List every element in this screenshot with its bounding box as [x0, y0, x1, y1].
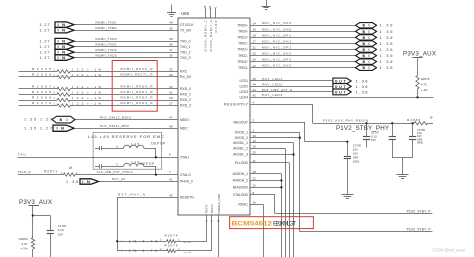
svg-text:MDI_NIC_DP2: MDI_NIC_DP2: [262, 45, 291, 49]
wire cap bus: [392, 157, 412, 159]
svg-text:RGMII_RXCTL_R: RGMII_RXCTL_R: [121, 73, 154, 77]
resistor R2066 22 ohm: [19, 73, 179, 79]
port BI MDI_NIC_DN3: [356, 65, 394, 70]
svg-text:1.27: 1.27: [40, 39, 50, 43]
svg-text:P3V3_AUX_PHY_REGIN: P3V3_AUX_PHY_REGIN: [323, 118, 368, 122]
port BI PHY_54612_MDIO: [24, 116, 75, 123]
svg-text:0603: 0603: [353, 160, 360, 164]
svg-text:TALO_R: TALO_R: [18, 170, 32, 174]
svg-text:DVDD_1: DVDD_1: [235, 131, 248, 135]
svg-text:1.36: 1.36: [380, 35, 394, 40]
port BI MDI_NIC_DP0: [356, 23, 394, 28]
svg-text:EB1KMLGT: EB1KMLGT: [273, 221, 296, 227]
svg-text:OVDD_RGMII_2: OVDD_RGMII_2: [209, 20, 213, 51]
wire MDI_NIC_DP0: [250, 21, 356, 25]
svg-text:48: 48: [169, 124, 173, 128]
svg-text:DEPOP: DEPOP: [151, 142, 165, 146]
svg-text:21: 21: [253, 46, 257, 50]
ground (cap bus): [397, 158, 409, 179]
wire MDI_NIC_DN2: [250, 52, 356, 56]
svg-text:R2076: R2076: [421, 77, 430, 81]
resistor R2069 22 ohm: [19, 96, 179, 102]
svg-text:PHY_54612_MDC: PHY_54612_MDC: [100, 124, 130, 128]
svg-text:1.36: 1.36: [380, 53, 394, 58]
svg-text:31: 31: [169, 91, 173, 95]
svg-text:R2071: R2071: [44, 169, 57, 173]
svg-text:22: 22: [253, 64, 257, 68]
svg-text:TRD0+: TRD0+: [237, 24, 248, 28]
wire L45 to XTALI: [144, 142, 166, 158]
svg-text:AVDDL_3: AVDDL_3: [233, 153, 248, 157]
wire DVDD_2: [250, 137, 301, 139]
svg-text:14: 14: [253, 21, 257, 25]
svg-text:RGMII_TXD2: RGMII_TXD2: [96, 48, 117, 52]
svg-text:1.35: 1.35: [24, 126, 36, 130]
svg-text:CLK_25M_PHY_XTALO: CLK_25M_PHY_XTALO: [97, 170, 134, 174]
port BI MDI_NIC_DN1: [356, 41, 394, 46]
capacitor (EMC row A): [95, 146, 123, 150]
port IN PHY_54612_MDC: [24, 125, 74, 131]
svg-text:PHY_A0: PHY_A0: [112, 177, 125, 181]
wire AVDDH_2: [250, 179, 283, 181]
wire PLLVDD: [250, 163, 290, 257]
svg-text:RGMII_RXD3_R: RGMII_RXD3_R: [121, 101, 154, 105]
red highlight box (RGMII_RX nets): [112, 61, 157, 112]
port BI MDI_NIC_DP1: [356, 35, 394, 40]
svg-text:+-1%: +-1%: [421, 88, 428, 92]
svg-text:RXD_1: RXD_1: [180, 93, 191, 97]
svg-text:GTXCLK: GTXCLK: [180, 23, 194, 27]
wire MDI_NIC_DN0: [250, 27, 356, 31]
svg-text:PHY_LED4: PHY_LED4: [262, 93, 282, 97]
wire RGMII_TXD0 to pin TXD_0: [74, 37, 178, 42]
red highlight box (part number): [230, 217, 314, 229]
wire RST_PHY_N: [117, 193, 178, 198]
svg-text:PLLVDD: PLLVDD: [235, 161, 248, 165]
svg-text:RGMII_TXD3: RGMII_TXD3: [96, 54, 117, 58]
capacitor C1787 0.1U 16V: [47, 216, 67, 257]
svg-text:OUT: OUT: [335, 79, 347, 83]
wire MDI_NIC_DN3: [250, 64, 356, 68]
svg-text:38: 38: [169, 37, 173, 41]
svg-text:U86: U86: [181, 11, 190, 16]
svg-text:28: 28: [169, 96, 173, 100]
wire CLK_25M_PHY_XTALO: [75, 170, 178, 176]
svg-text:RGMII_TXD1: RGMII_TXD1: [96, 43, 117, 47]
wire PHY_54612_MDIO: [75, 115, 178, 119]
svg-text:RST_PHY_N: RST_PHY_N: [118, 193, 145, 197]
svg-text:MDIO: MDIO: [180, 118, 189, 122]
wire PHY_LED4 to pullup: [250, 93, 434, 98]
svg-text:XTALVDD: XTALVDD: [233, 193, 249, 197]
svg-text:REGSUPPLY: REGSUPPLY: [224, 103, 249, 107]
svg-text:RDAC: RDAC: [238, 203, 248, 207]
svg-text:45: 45: [253, 77, 257, 81]
port BI MDI_NIC_DN0: [356, 29, 394, 34]
pin 34 OVDD_RGMII_2 top stub: [208, 5, 212, 18]
port IN RGMII_TXCK: [40, 22, 75, 27]
part number BCM54612EB1KMLGT: [232, 220, 297, 227]
svg-text:LED4: LED4: [240, 96, 249, 100]
wire PHY_A0: [99, 177, 179, 181]
svg-text:RGMII_RXD2_R: RGMII_RXD2_R: [121, 96, 154, 100]
wire MDI_NIC_DP3: [250, 58, 356, 62]
wire TEST3 down: [210, 215, 213, 251]
pin name PLLVDD: [235, 159, 256, 165]
svg-text:1.35: 1.35: [66, 180, 78, 184]
svg-text:36: 36: [169, 54, 173, 58]
resistor R2071 0 ohm: [18, 166, 78, 177]
svg-text:RGMII_RXD0_R: RGMII_RXD0_R: [121, 85, 154, 89]
svg-text:42: 42: [169, 194, 173, 198]
svg-text:TXD_0: TXD_0: [180, 39, 191, 43]
svg-text:TRD2-: TRD2-: [238, 54, 248, 58]
pin name RX_DV: [169, 73, 192, 79]
pin name AVDDL_2: [233, 144, 256, 150]
svg-text:OVDD: OVDD: [214, 20, 218, 33]
svg-text:1.27: 1.27: [40, 28, 50, 32]
pin name AVDDL_1: [233, 139, 256, 145]
wire RGMII_TXEN to pin TX_EN: [74, 26, 178, 30]
svg-text:RX_DV: RX_DV: [180, 75, 192, 79]
svg-text:L45-L49 RESERVE FOR EMC: L45-L49 RESERVE FOR EMC: [88, 134, 164, 139]
svg-text:40: 40: [169, 21, 173, 25]
pin 1 OVDD top stub: [213, 6, 217, 18]
svg-text:0805: 0805: [417, 141, 423, 145]
wire REGOUT to P1V2 rail: [250, 118, 347, 141]
svg-text:10: 10: [253, 201, 257, 205]
resistor R2075 4.7K: [117, 243, 212, 254]
svg-text:TRD1-: TRD1-: [238, 42, 248, 46]
svg-text:TRD3+: TRD3+: [237, 60, 248, 64]
svg-text:RXD_0: RXD_0: [180, 87, 191, 91]
svg-text:1.36: 1.36: [380, 23, 394, 28]
pin name XTALVDD: [233, 191, 255, 197]
wire L49 to XTALO: [140, 162, 156, 174]
svg-text:1.27: 1.27: [40, 50, 50, 54]
svg-text:1.36: 1.36: [380, 59, 394, 64]
svg-text:DVDD_2: DVDD_2: [235, 136, 248, 140]
ground (C1795): [341, 194, 353, 196]
wire P3V3_AUX vertical: [32, 206, 51, 238]
svg-text:PHYA_0: PHYA_0: [180, 180, 193, 184]
IC U86 body: [178, 18, 250, 215]
svg-text:1.27: 1.27: [40, 56, 50, 60]
port IN RGMII_TXEN: [40, 28, 75, 33]
svg-text:23: 23: [253, 52, 257, 56]
svg-text:LED3: LED3: [240, 90, 249, 94]
svg-text:R2074: R2074: [165, 234, 178, 238]
svg-text:44: 44: [253, 83, 257, 87]
svg-text:BIASVDD: BIASVDD: [233, 186, 248, 190]
svg-text:1.36: 1.36: [356, 84, 369, 89]
inductor L45: [116, 142, 144, 149]
svg-text:MDI_NIC_DP1: MDI_NIC_DP1: [262, 33, 291, 37]
wire RGMII_TXD3 to pin TXD_3: [74, 54, 178, 58]
svg-text:22: 22: [253, 177, 257, 181]
svg-text:PHY_LED2: PHY_LED2: [262, 82, 282, 86]
resistor R2080 0 ohm: [407, 115, 433, 125]
svg-text:16V: 16V: [371, 138, 376, 142]
svg-text:PHY_LED1: PHY_LED1: [262, 77, 282, 81]
resistor R2067 22 ohm: [19, 85, 179, 91]
svg-text:47: 47: [169, 116, 173, 120]
capacitor C1799 10U 16V 0805: [409, 123, 425, 158]
svg-text:OVDD_RGMII_1: OVDD_RGMII_1: [204, 20, 208, 51]
svg-text:XTALI: XTALI: [180, 156, 189, 160]
svg-text:MDC: MDC: [180, 126, 188, 130]
pin name RXC: [169, 68, 188, 74]
svg-text:LED2: LED2: [240, 85, 249, 89]
svg-text:R2060: R2060: [19, 237, 28, 241]
svg-text:MDI_NIC_DP3: MDI_NIC_DP3: [262, 58, 291, 62]
svg-text:RXD_3: RXD_3: [180, 104, 191, 108]
svg-text:16V: 16V: [58, 232, 63, 236]
port BI MDI_NIC_DP2: [356, 47, 394, 52]
pin name DVDD_1: [235, 129, 255, 135]
ground (top left of U86): [167, 5, 176, 17]
pin name RXD_1: [169, 91, 191, 97]
svg-text:R2080: R2080: [407, 118, 420, 122]
pin name DVDD_2: [235, 134, 257, 140]
svg-text:1.27: 1.27: [40, 118, 52, 122]
port BI MDI_NIC_DN2: [356, 53, 394, 58]
svg-text:AVDDL_1: AVDDL_1: [233, 141, 248, 145]
svg-text:12: 12: [253, 183, 257, 187]
svg-text:PHY_54612_MDIO: PHY_54612_MDIO: [100, 115, 132, 119]
svg-text:17: 17: [253, 40, 257, 44]
resistor R2070 22 ohm: [19, 101, 179, 107]
svg-text:TX_EN: TX_EN: [180, 28, 191, 32]
svg-text:1.36: 1.36: [356, 78, 369, 83]
svg-text:28: 28: [169, 73, 173, 77]
svg-text:1.36: 1.36: [380, 29, 394, 34]
svg-text:AVDDL_2: AVDDL_2: [233, 147, 248, 151]
resistor R2074 4.7K: [117, 234, 207, 245]
svg-text:P3V3_AUX: P3V3_AUX: [403, 51, 436, 58]
resistor R2065 22 ohm: [19, 67, 179, 73]
wire RST_PHY_N vertical to pull resistors: [116, 197, 118, 251]
resistor R2060 4.7K: [19, 237, 35, 257]
svg-text:36: 36: [169, 43, 173, 47]
svg-text:TEST3: TEST3: [210, 204, 214, 213]
port IN RGMII_TXD3: [40, 55, 75, 60]
pin name RDAC: [238, 201, 256, 207]
wire AVDDL_1: [250, 143, 294, 257]
svg-text:MDI_NIC_DN0: MDI_NIC_DN0: [262, 27, 291, 31]
ground (top right): [262, 0, 271, 10]
resistor R2076 4.7K pullup: [416, 58, 430, 98]
capacitor C1798: [389, 123, 396, 158]
wire MDI_NIC_DN1: [250, 39, 356, 43]
capacitor (EMC row B): [95, 164, 123, 168]
pin name AVDDL_3: [233, 151, 256, 157]
wire PHY_LINK_ACT_N: [250, 88, 333, 92]
junction P1V2 rail: [346, 141, 348, 143]
wire RDAC down: [250, 205, 264, 257]
power bar P3V3_AUX right: [413, 57, 423, 59]
svg-text:RXC: RXC: [180, 70, 188, 74]
svg-text:TXD_1: TXD_1: [180, 45, 191, 49]
inductor L49: [116, 160, 144, 167]
wire REGSUPPLY to REGIN rail: [250, 100, 313, 123]
svg-text:AVDDH_2: AVDDH_2: [233, 179, 249, 183]
svg-text:TXD_2: TXD_2: [180, 50, 191, 54]
svg-text:AVDDH_1: AVDDH_1: [233, 172, 249, 176]
wire PADDLE_GND down: [218, 215, 221, 257]
port BI MDI_NIC_DP3: [356, 59, 394, 64]
port IN RGMII_TXD1: [40, 44, 75, 49]
svg-text:18: 18: [253, 34, 257, 38]
svg-text:REGOUT: REGOUT: [233, 121, 248, 125]
wire BIASVDD: [250, 186, 283, 188]
capacitor C1797 0.1U 16V: [363, 123, 380, 147]
svg-text:1.36: 1.36: [380, 65, 394, 70]
svg-text:MDI_NIC_DP0: MDI_NIC_DP0: [262, 21, 291, 25]
svg-text:DEPOP: DEPOP: [140, 162, 154, 166]
OVDD pin name labels (vertical): [204, 20, 218, 52]
wire PHY_LED2: [250, 82, 333, 86]
svg-text:TRD1+: TRD1+: [237, 36, 248, 40]
svg-text:RGMII_TXEN: RGMII_TXEN: [96, 26, 117, 30]
svg-text:1.27: 1.27: [40, 23, 50, 27]
svg-text:16: 16: [253, 28, 257, 32]
pin name AVDDH_2: [233, 177, 257, 183]
svg-text:TRD2+: TRD2+: [237, 48, 248, 52]
svg-text:27: 27: [169, 102, 173, 106]
port OUT PHY_LED1: [333, 78, 368, 84]
svg-text:43: 43: [253, 88, 257, 92]
svg-text:R2075: R2075: [165, 243, 178, 247]
pin name RXD_3: [169, 102, 191, 108]
svg-text:XTALO: XTALO: [180, 173, 191, 177]
power bar P3V3_AUX left: [29, 205, 40, 207]
svg-text:PADDLE_GND: PADDLE_GND: [217, 194, 221, 213]
port OUT PHY_LINK_ACT_N: [333, 89, 368, 95]
port IN RGMII_TXD0: [40, 38, 75, 43]
svg-text:RESETN: RESETN: [180, 196, 194, 200]
svg-text:MDI_NIC_DN3: MDI_NIC_DN3: [262, 64, 291, 68]
svg-text:CSDN @wd_uuan: CSDN @wd_uuan: [432, 247, 466, 252]
svg-text:1.27: 1.27: [40, 45, 50, 49]
wire XTALI net TALI: [18, 153, 178, 159]
port IN PHY_A0: [66, 179, 99, 184]
svg-text:+-1% 4.7K: +-1% 4.7K: [120, 249, 158, 253]
svg-text:PHY_LINK_ACT_N: PHY_LINK_ACT_N: [262, 88, 292, 92]
EMC reserve box L45-L49: [93, 132, 162, 169]
svg-text:TRD3-: TRD3-: [238, 66, 248, 70]
svg-text:OUT: OUT: [335, 90, 347, 94]
svg-text:LED1: LED1: [240, 79, 249, 83]
svg-text:4.7K: 4.7K: [21, 242, 27, 246]
svg-text:RGMII_TXCK: RGMII_TXCK: [96, 21, 118, 25]
wire XTALVDD to P1V2_STBY_P: [250, 195, 432, 214]
svg-text:24: 24: [253, 58, 257, 62]
svg-text:RGMII_RXD1_R: RGMII_RXD1_R: [121, 90, 154, 94]
svg-text:4.7K: 4.7K: [421, 83, 427, 87]
svg-text:33: 33: [169, 68, 173, 72]
wire RGMII_TXD1 to pin TXD_1: [74, 43, 178, 47]
wire P3V3_AUX_PHY_REGIN rail: [313, 122, 414, 124]
pin 28 OVDD_RGMII_1 top stub: [203, 5, 207, 18]
port IN RGMII_TXD2: [40, 49, 75, 54]
svg-text:xxx_tst2: xxx_tst2: [184, 241, 192, 244]
svg-text:xxx_tst3: xxx_tst3: [184, 251, 192, 254]
svg-text:OUT: OUT: [335, 85, 347, 89]
svg-text:RGMII_RXCK_R: RGMII_RXCK_R: [121, 67, 154, 71]
svg-text:19: 19: [253, 144, 257, 148]
wire PHY_54612_MDC: [74, 124, 178, 129]
wire AVDDH_1: [250, 174, 282, 257]
svg-text:37: 37: [169, 48, 173, 52]
pin name AVDDH_1: [233, 170, 257, 176]
wire TEST2 down: [205, 215, 208, 241]
pin name RXD_0: [169, 85, 191, 91]
svg-text:TEST2: TEST2: [205, 204, 209, 213]
wire DVDD_1 to P1V2_STBY_P: [250, 132, 432, 231]
svg-text:TRD0-: TRD0-: [238, 30, 248, 34]
wire MDI_NIC_DP1: [250, 33, 356, 37]
port OUT PHY_LED2: [333, 84, 368, 90]
svg-text:1.36: 1.36: [356, 89, 369, 94]
svg-text:1.35: 1.35: [24, 118, 36, 122]
resistor R2068 22 ohm: [19, 90, 179, 96]
svg-text:41: 41: [169, 178, 173, 182]
wire RGMII_TXCK to pin GTXCLK: [74, 21, 178, 25]
wire AVDDL_2: [250, 148, 286, 257]
svg-text:RGMII_TXD0: RGMII_TXD0: [96, 37, 117, 41]
svg-text:1.36: 1.36: [380, 41, 394, 46]
svg-text:1.27: 1.27: [40, 126, 52, 130]
svg-text:RXD_2: RXD_2: [180, 98, 191, 102]
svg-text:TXD_3: TXD_3: [180, 56, 191, 60]
svg-text:25: 25: [253, 151, 257, 155]
svg-text:BCM54612: BCM54612: [232, 220, 273, 227]
svg-text:32: 32: [169, 85, 173, 89]
wire MDI_NIC_DP2: [250, 45, 356, 49]
wire RGMII_TXD2 to pin TXD_2: [74, 48, 178, 53]
svg-text:42: 42: [253, 93, 257, 97]
wire AVDDL_3: [250, 153, 295, 155]
svg-text:1.36: 1.36: [380, 47, 394, 52]
pin name RXD_2: [169, 96, 191, 102]
svg-text:MDI_NIC_DN1: MDI_NIC_DN1: [262, 39, 291, 43]
pin name BIASVDD: [233, 183, 256, 189]
svg-text:P1V2_STBY_PHY: P1V2_STBY_PHY: [336, 125, 389, 132]
svg-text:P1V2_STBY_P: P1V2_STBY_P: [407, 209, 432, 213]
wire PHY_LED1: [250, 77, 333, 81]
svg-text:P3V3_AUX: P3V3_AUX: [19, 199, 52, 206]
svg-text:35: 35: [169, 26, 173, 30]
svg-text:TAU: TAU: [18, 153, 26, 157]
svg-text:P1V2_STBY_P: P1V2_STBY_P: [407, 228, 432, 232]
svg-text:MDI_NIC_DN2: MDI_NIC_DN2: [262, 52, 291, 56]
svg-text:+-1%: +-1%: [20, 247, 27, 251]
capacitor C1795 10U 16V X5R 0603: [344, 142, 362, 195]
